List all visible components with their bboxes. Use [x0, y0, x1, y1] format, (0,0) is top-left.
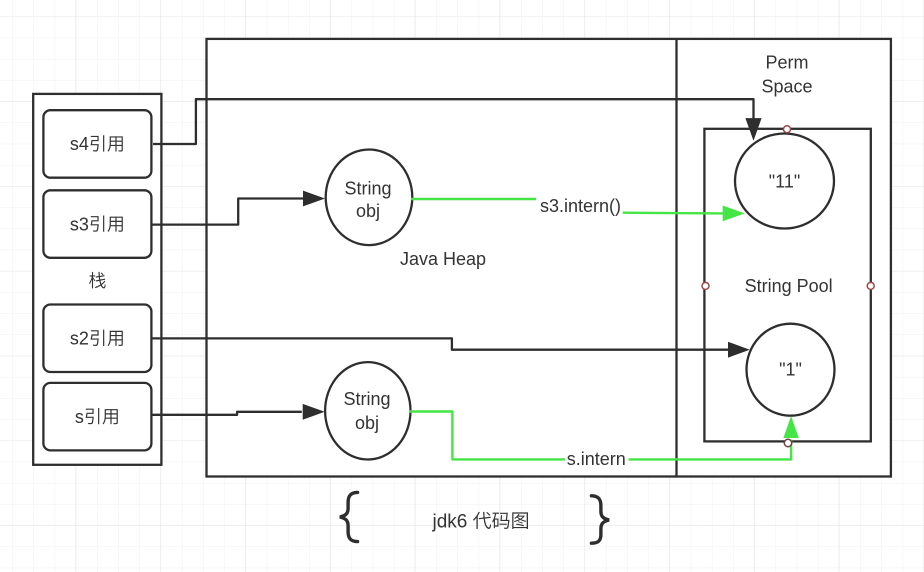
left curly brace: [340, 492, 358, 541]
stack box s2引用: [43, 305, 151, 373]
label "1": [779, 360, 802, 380]
label s3.intern(): [540, 196, 621, 216]
svg-text:jdk6: jdk6: [432, 512, 468, 533]
svg-text:s2: s2: [70, 329, 89, 349]
wire s4 to "11": [153, 99, 754, 144]
arrowhead s3.intern: [723, 206, 743, 220]
node String obj (top): [326, 150, 413, 246]
svg-text:s4: s4: [70, 134, 89, 154]
Java Heap container: [207, 39, 891, 477]
red connection point (right): [867, 282, 874, 289]
red connection point (left): [702, 282, 709, 289]
arrowhead s2 wire: [729, 343, 749, 357]
green wire s3.intern right segment: [623, 211, 723, 214]
arrowhead s wire: [303, 405, 323, 419]
red connection point (top): [784, 126, 791, 133]
arrowhead s4 wire: [746, 119, 761, 140]
green endpoint marker: [784, 439, 791, 446]
wire s3 to String obj (top): [153, 199, 304, 225]
String Pool container: [704, 129, 870, 442]
svg-text:s3.intern(): s3.intern(): [540, 196, 621, 216]
green wire s3.intern left segment: [411, 198, 536, 200]
right curly brace: [591, 496, 609, 543]
label "11": [769, 171, 800, 191]
label s引用: [75, 407, 118, 427]
arrowhead s3 wire: [304, 191, 324, 205]
node "1": [747, 324, 835, 416]
svg-text:Space: Space: [761, 76, 812, 96]
stack box s3引用: [43, 190, 151, 257]
label Java Heap: [400, 249, 486, 269]
label String obj (bottom): [343, 389, 390, 433]
label s.intern: [565, 449, 629, 469]
Perm Space divider: [675, 39, 677, 477]
svg-text:s3: s3: [70, 214, 89, 234]
svg-text:String Pool: String Pool: [745, 276, 833, 296]
wire s to String obj (bottom): [153, 412, 302, 415]
svg-text:Java Heap: Java Heap: [400, 249, 486, 269]
svg-text:"1": "1": [779, 360, 802, 380]
svg-text:Perm: Perm: [765, 52, 808, 72]
green wire s.intern: [410, 412, 792, 460]
svg-text:s: s: [75, 407, 84, 427]
label 栈: [89, 272, 106, 289]
node "11": [735, 134, 834, 229]
caption jdk6 代码图: [432, 512, 528, 533]
svg-text:String: String: [344, 179, 391, 199]
label Perm Space: [761, 52, 812, 96]
stack container: [33, 94, 161, 465]
wire s2 to "1": [153, 338, 729, 349]
label String Pool: [745, 276, 833, 296]
stack box s引用: [43, 383, 151, 451]
stack box s4引用: [43, 110, 151, 178]
svg-text:String: String: [343, 389, 390, 409]
label s2引用: [70, 329, 123, 349]
svg-text:obj: obj: [356, 201, 380, 221]
label s3引用: [70, 214, 123, 234]
svg-text:"11": "11": [769, 171, 800, 191]
label s4引用: [70, 134, 123, 154]
svg-text:obj: obj: [355, 413, 379, 433]
arrowhead s.intern: [784, 418, 798, 438]
label String obj (top): [344, 179, 391, 221]
svg-text:s.intern: s.intern: [567, 449, 626, 469]
node String obj (bottom): [325, 362, 410, 459]
